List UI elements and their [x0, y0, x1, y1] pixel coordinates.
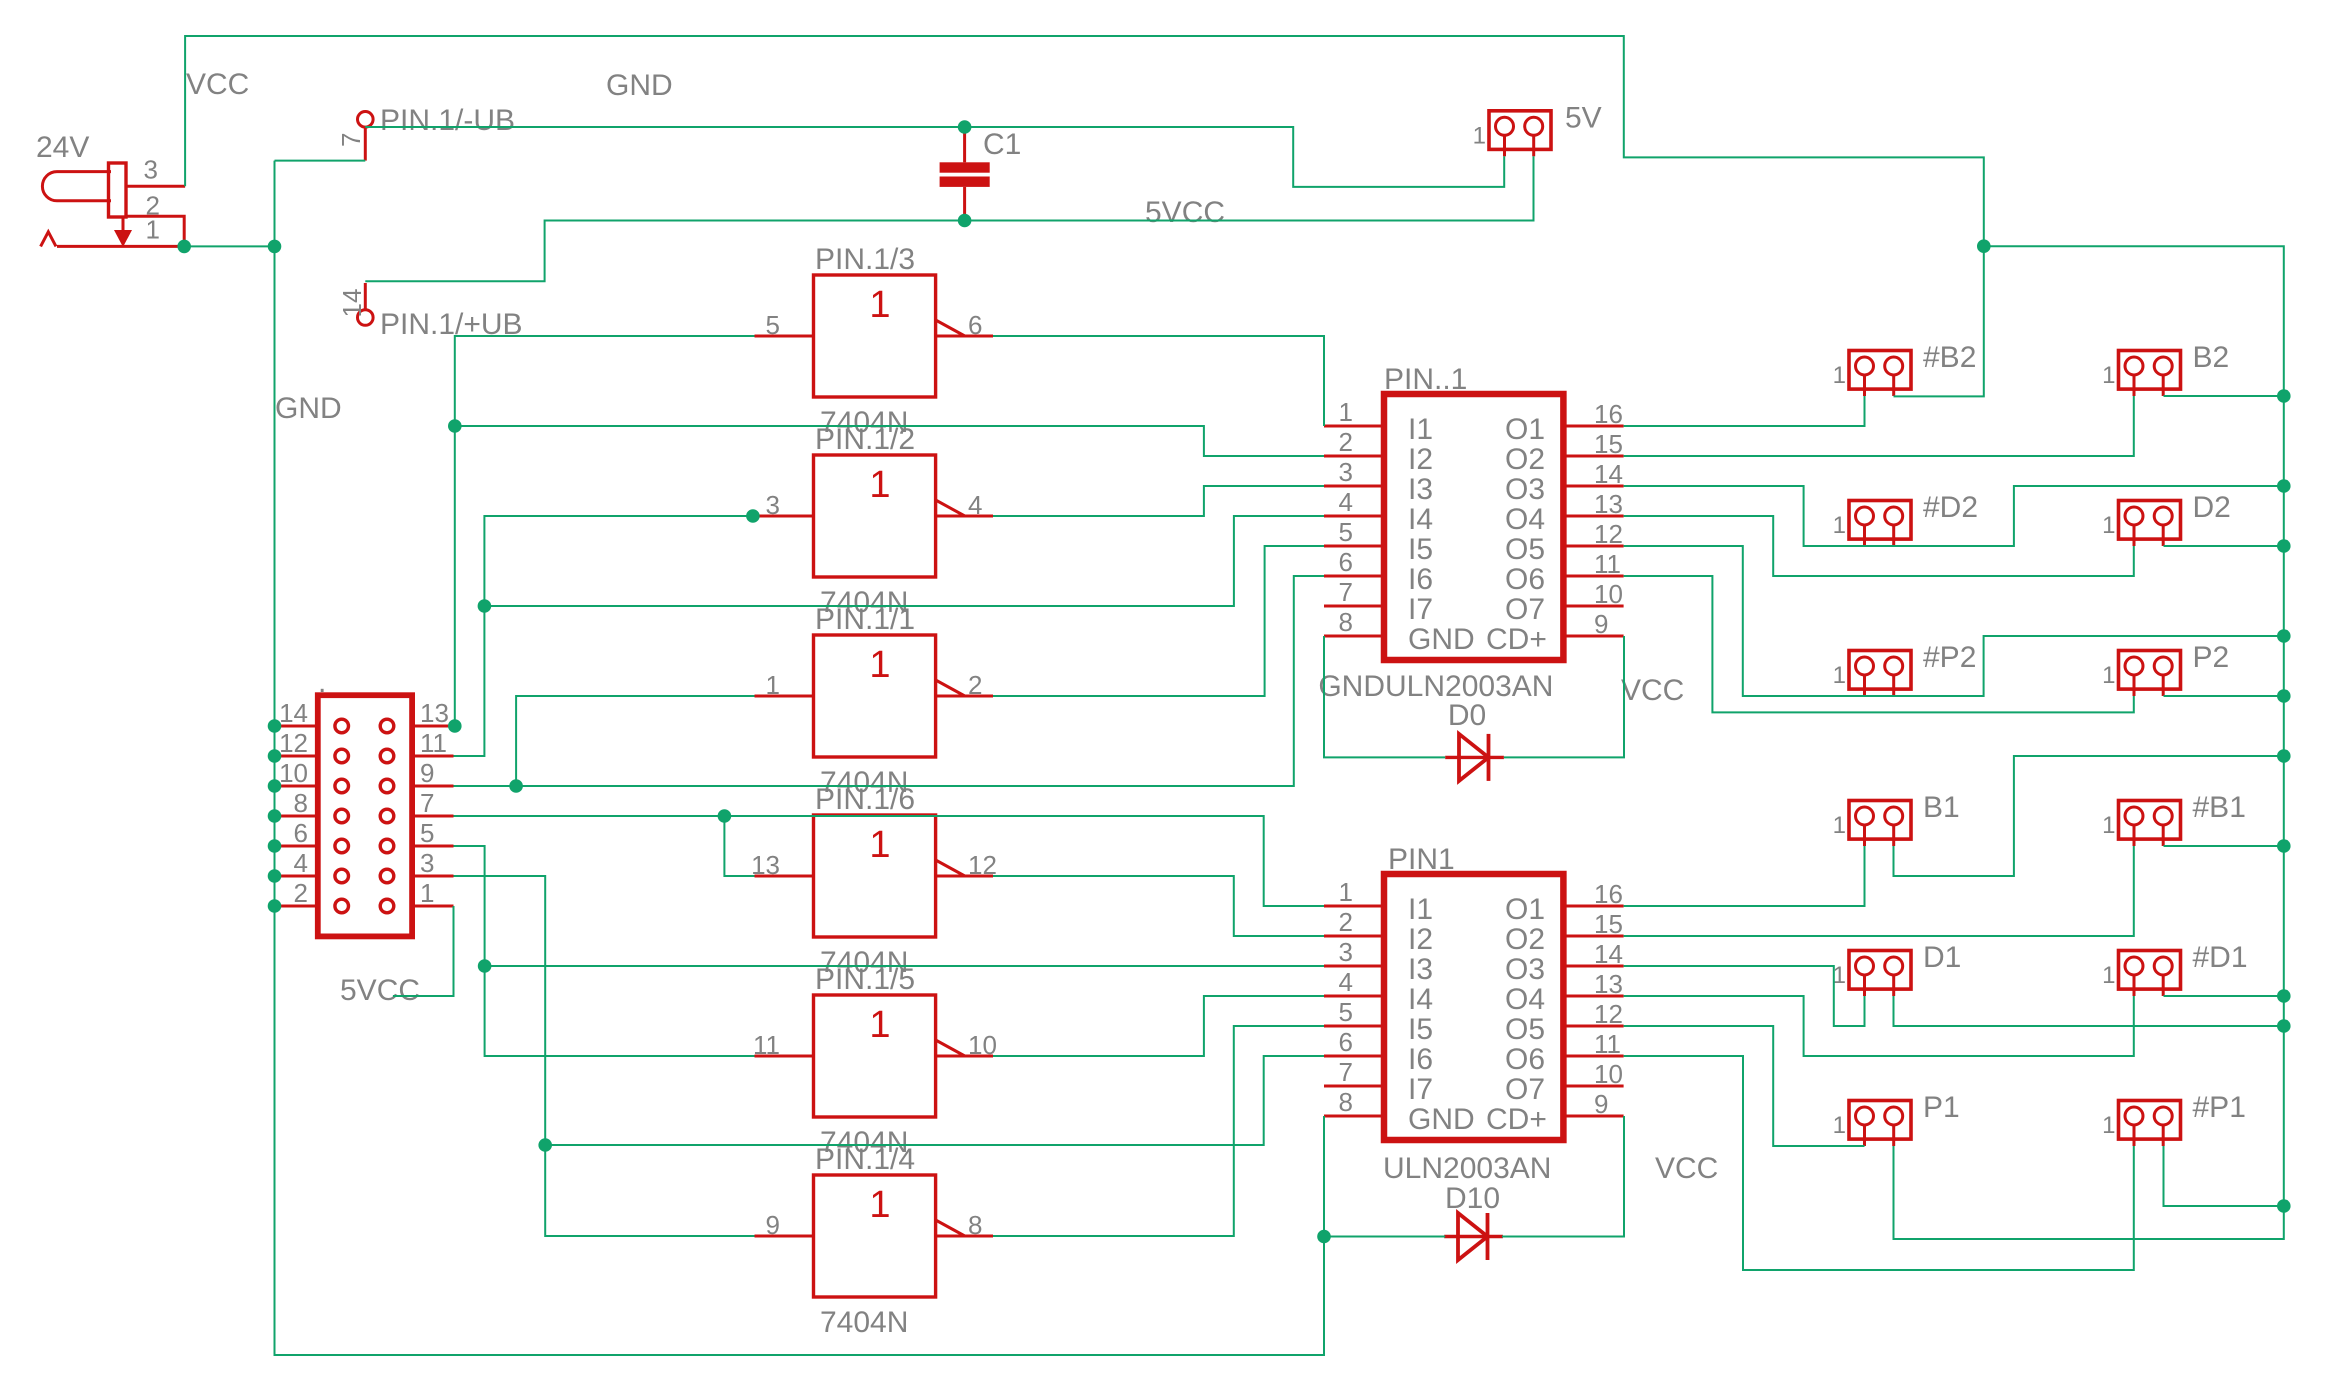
svg-text:O3: O3: [1505, 473, 1545, 506]
svg-text:1: 1: [869, 824, 890, 866]
svg-text:10: 10: [1594, 579, 1623, 609]
svg-text:CD+: CD+: [1486, 1103, 1547, 1136]
svg-text:6: 6: [294, 818, 308, 848]
svg-text:1: 1: [869, 284, 890, 326]
svg-text:4: 4: [968, 490, 982, 520]
svg-text:O1: O1: [1505, 893, 1545, 926]
svg-text:I2: I2: [1408, 443, 1433, 476]
svg-text:1: 1: [2102, 812, 2115, 839]
svg-text:GND: GND: [275, 392, 342, 425]
svg-text:O5: O5: [1505, 533, 1545, 566]
svg-text:I5: I5: [1408, 533, 1433, 566]
svg-text:O7: O7: [1505, 593, 1545, 626]
svg-text:#D1: #D1: [2193, 941, 2248, 974]
svg-text:12: 12: [1594, 519, 1623, 549]
svg-text:#B1: #B1: [2193, 791, 2246, 824]
svg-text:14: 14: [279, 698, 308, 728]
svg-text:2: 2: [1339, 427, 1353, 457]
svg-text:1: 1: [1833, 362, 1846, 389]
svg-text:2: 2: [294, 878, 308, 908]
svg-text:1: 1: [2102, 512, 2115, 539]
svg-text:12: 12: [1594, 999, 1623, 1029]
svg-text:PIN.1/4: PIN.1/4: [815, 1143, 915, 1176]
svg-text:GND: GND: [606, 69, 673, 102]
svg-text:1: 1: [869, 644, 890, 686]
svg-text:5: 5: [1339, 997, 1353, 1027]
svg-text:I5: I5: [1408, 1013, 1433, 1046]
svg-text:1: 1: [869, 1184, 890, 1226]
svg-text:D1: D1: [1923, 941, 1961, 974]
svg-text:4: 4: [1339, 967, 1353, 997]
svg-text:7: 7: [336, 133, 366, 147]
svg-text:I4: I4: [1408, 503, 1433, 536]
svg-text:O3: O3: [1505, 953, 1545, 986]
svg-text:9: 9: [420, 758, 434, 788]
svg-text:I1: I1: [1408, 413, 1433, 446]
svg-text:16: 16: [1594, 879, 1623, 909]
svg-text:1: 1: [1339, 877, 1353, 907]
svg-text:I6: I6: [1408, 563, 1433, 596]
svg-text:8: 8: [294, 788, 308, 818]
svg-text:1: 1: [2102, 1112, 2115, 1139]
svg-text:10: 10: [279, 758, 308, 788]
svg-text:PIN.1/2: PIN.1/2: [815, 423, 915, 456]
svg-text:2: 2: [1339, 907, 1353, 937]
svg-text:D10: D10: [1445, 1182, 1500, 1215]
svg-text:PIN1: PIN1: [1388, 843, 1455, 876]
svg-text:3: 3: [420, 848, 434, 878]
svg-text:PIN.1/6: PIN.1/6: [815, 783, 915, 816]
svg-text:14: 14: [337, 289, 367, 318]
svg-text:PIN.1/3: PIN.1/3: [815, 243, 915, 276]
svg-text:9: 9: [1594, 609, 1608, 639]
svg-text:O6: O6: [1505, 1043, 1545, 1076]
svg-text:1: 1: [146, 215, 160, 245]
svg-text:24V: 24V: [36, 131, 89, 164]
svg-text:#P1: #P1: [2193, 1091, 2246, 1124]
svg-text:PIN.1/-UB: PIN.1/-UB: [380, 104, 515, 137]
svg-text:I7: I7: [1408, 593, 1433, 626]
svg-text:O4: O4: [1505, 983, 1545, 1016]
svg-text:7: 7: [420, 788, 434, 818]
svg-text:8: 8: [1339, 607, 1353, 637]
svg-text:D0: D0: [1448, 699, 1486, 732]
svg-text:O6: O6: [1505, 563, 1545, 596]
svg-text:#D2: #D2: [1923, 491, 1978, 524]
svg-text:6: 6: [968, 310, 982, 340]
svg-text:I3: I3: [1408, 473, 1433, 506]
svg-text:PIN.1/1: PIN.1/1: [815, 603, 915, 636]
svg-text:C1: C1: [983, 128, 1021, 161]
svg-text:3: 3: [1339, 457, 1353, 487]
svg-text:I6: I6: [1408, 1043, 1433, 1076]
svg-text:I4: I4: [1408, 983, 1433, 1016]
svg-text:O2: O2: [1505, 443, 1545, 476]
svg-text:1: 1: [2102, 962, 2115, 989]
svg-text:11: 11: [1594, 549, 1621, 579]
svg-text:1: 1: [1833, 512, 1846, 539]
svg-text:#B2: #B2: [1923, 341, 1976, 374]
svg-text:5VCC: 5VCC: [1145, 196, 1225, 229]
svg-text:7: 7: [1339, 577, 1353, 607]
svg-text:I1: I1: [1408, 893, 1433, 926]
svg-text:6: 6: [1339, 1027, 1353, 1057]
svg-text:4: 4: [294, 848, 308, 878]
svg-text:5: 5: [420, 818, 434, 848]
svg-text:13: 13: [751, 850, 780, 880]
svg-text:5VCC: 5VCC: [340, 974, 420, 1007]
svg-text:D2: D2: [2193, 491, 2231, 524]
svg-text:O2: O2: [1505, 923, 1545, 956]
svg-text:14: 14: [1594, 459, 1623, 489]
svg-text:12: 12: [968, 850, 997, 880]
svg-text:VCC: VCC: [1655, 1152, 1718, 1185]
svg-text:8: 8: [968, 1210, 982, 1240]
svg-text:#P2: #P2: [1923, 641, 1976, 674]
svg-text:1: 1: [1473, 122, 1486, 149]
svg-text:9: 9: [1594, 1089, 1608, 1119]
svg-text:11: 11: [1594, 1029, 1621, 1059]
svg-text:3: 3: [144, 155, 158, 185]
svg-text:6: 6: [1339, 547, 1353, 577]
svg-text:VCC: VCC: [1621, 674, 1684, 707]
svg-text:10: 10: [1594, 1059, 1623, 1089]
svg-text:I2: I2: [1408, 923, 1433, 956]
svg-text:5V: 5V: [1565, 101, 1602, 134]
svg-text:O7: O7: [1505, 1073, 1545, 1106]
svg-text:O4: O4: [1505, 503, 1545, 536]
svg-text:GND: GND: [1408, 623, 1475, 656]
svg-text:PIN.1/5: PIN.1/5: [815, 963, 915, 996]
svg-text:1: 1: [2102, 362, 2115, 389]
svg-text:11: 11: [420, 728, 447, 758]
svg-text:16: 16: [1594, 399, 1623, 429]
svg-text:.: .: [318, 666, 326, 699]
svg-text:1: 1: [1833, 812, 1846, 839]
svg-text:1: 1: [2102, 662, 2115, 689]
svg-text:P2: P2: [2193, 641, 2230, 674]
svg-text:I7: I7: [1408, 1073, 1433, 1106]
svg-text:5: 5: [1339, 517, 1353, 547]
svg-text:2: 2: [968, 670, 982, 700]
svg-text:CD+: CD+: [1486, 623, 1547, 656]
svg-text:3: 3: [1339, 937, 1353, 967]
svg-text:1: 1: [869, 464, 890, 506]
svg-text:14: 14: [1594, 939, 1623, 969]
svg-text:O5: O5: [1505, 1013, 1545, 1046]
svg-text:B1: B1: [1923, 791, 1960, 824]
svg-text:9: 9: [766, 1210, 780, 1240]
svg-text:13: 13: [420, 698, 449, 728]
svg-text:15: 15: [1594, 909, 1623, 939]
svg-text:GND: GND: [1318, 670, 1385, 703]
svg-text:8: 8: [1339, 1087, 1353, 1117]
svg-text:ULN2003AN: ULN2003AN: [1383, 1152, 1551, 1185]
svg-text:VCC: VCC: [186, 68, 249, 101]
svg-text:4: 4: [1339, 487, 1353, 517]
svg-text:15: 15: [1594, 429, 1623, 459]
svg-text:O1: O1: [1505, 413, 1545, 446]
svg-text:11: 11: [753, 1030, 780, 1060]
svg-text:13: 13: [1594, 489, 1623, 519]
svg-text:1: 1: [420, 878, 434, 908]
svg-text:3: 3: [766, 490, 780, 520]
svg-text:PIN..1: PIN..1: [1384, 363, 1467, 396]
svg-text:1: 1: [1833, 1112, 1846, 1139]
svg-text:7: 7: [1339, 1057, 1353, 1087]
svg-text:I3: I3: [1408, 953, 1433, 986]
svg-text:1: 1: [766, 670, 780, 700]
svg-text:13: 13: [1594, 969, 1623, 999]
svg-text:10: 10: [968, 1030, 997, 1060]
svg-text:1: 1: [869, 1004, 890, 1046]
svg-text:7404N: 7404N: [820, 1306, 908, 1339]
svg-text:1: 1: [1339, 397, 1353, 427]
svg-text:1: 1: [1833, 662, 1846, 689]
svg-text:5: 5: [766, 310, 780, 340]
svg-text:12: 12: [279, 728, 308, 758]
svg-text:GND: GND: [1408, 1103, 1475, 1136]
svg-text:B2: B2: [2193, 341, 2230, 374]
svg-text:P1: P1: [1923, 1091, 1960, 1124]
